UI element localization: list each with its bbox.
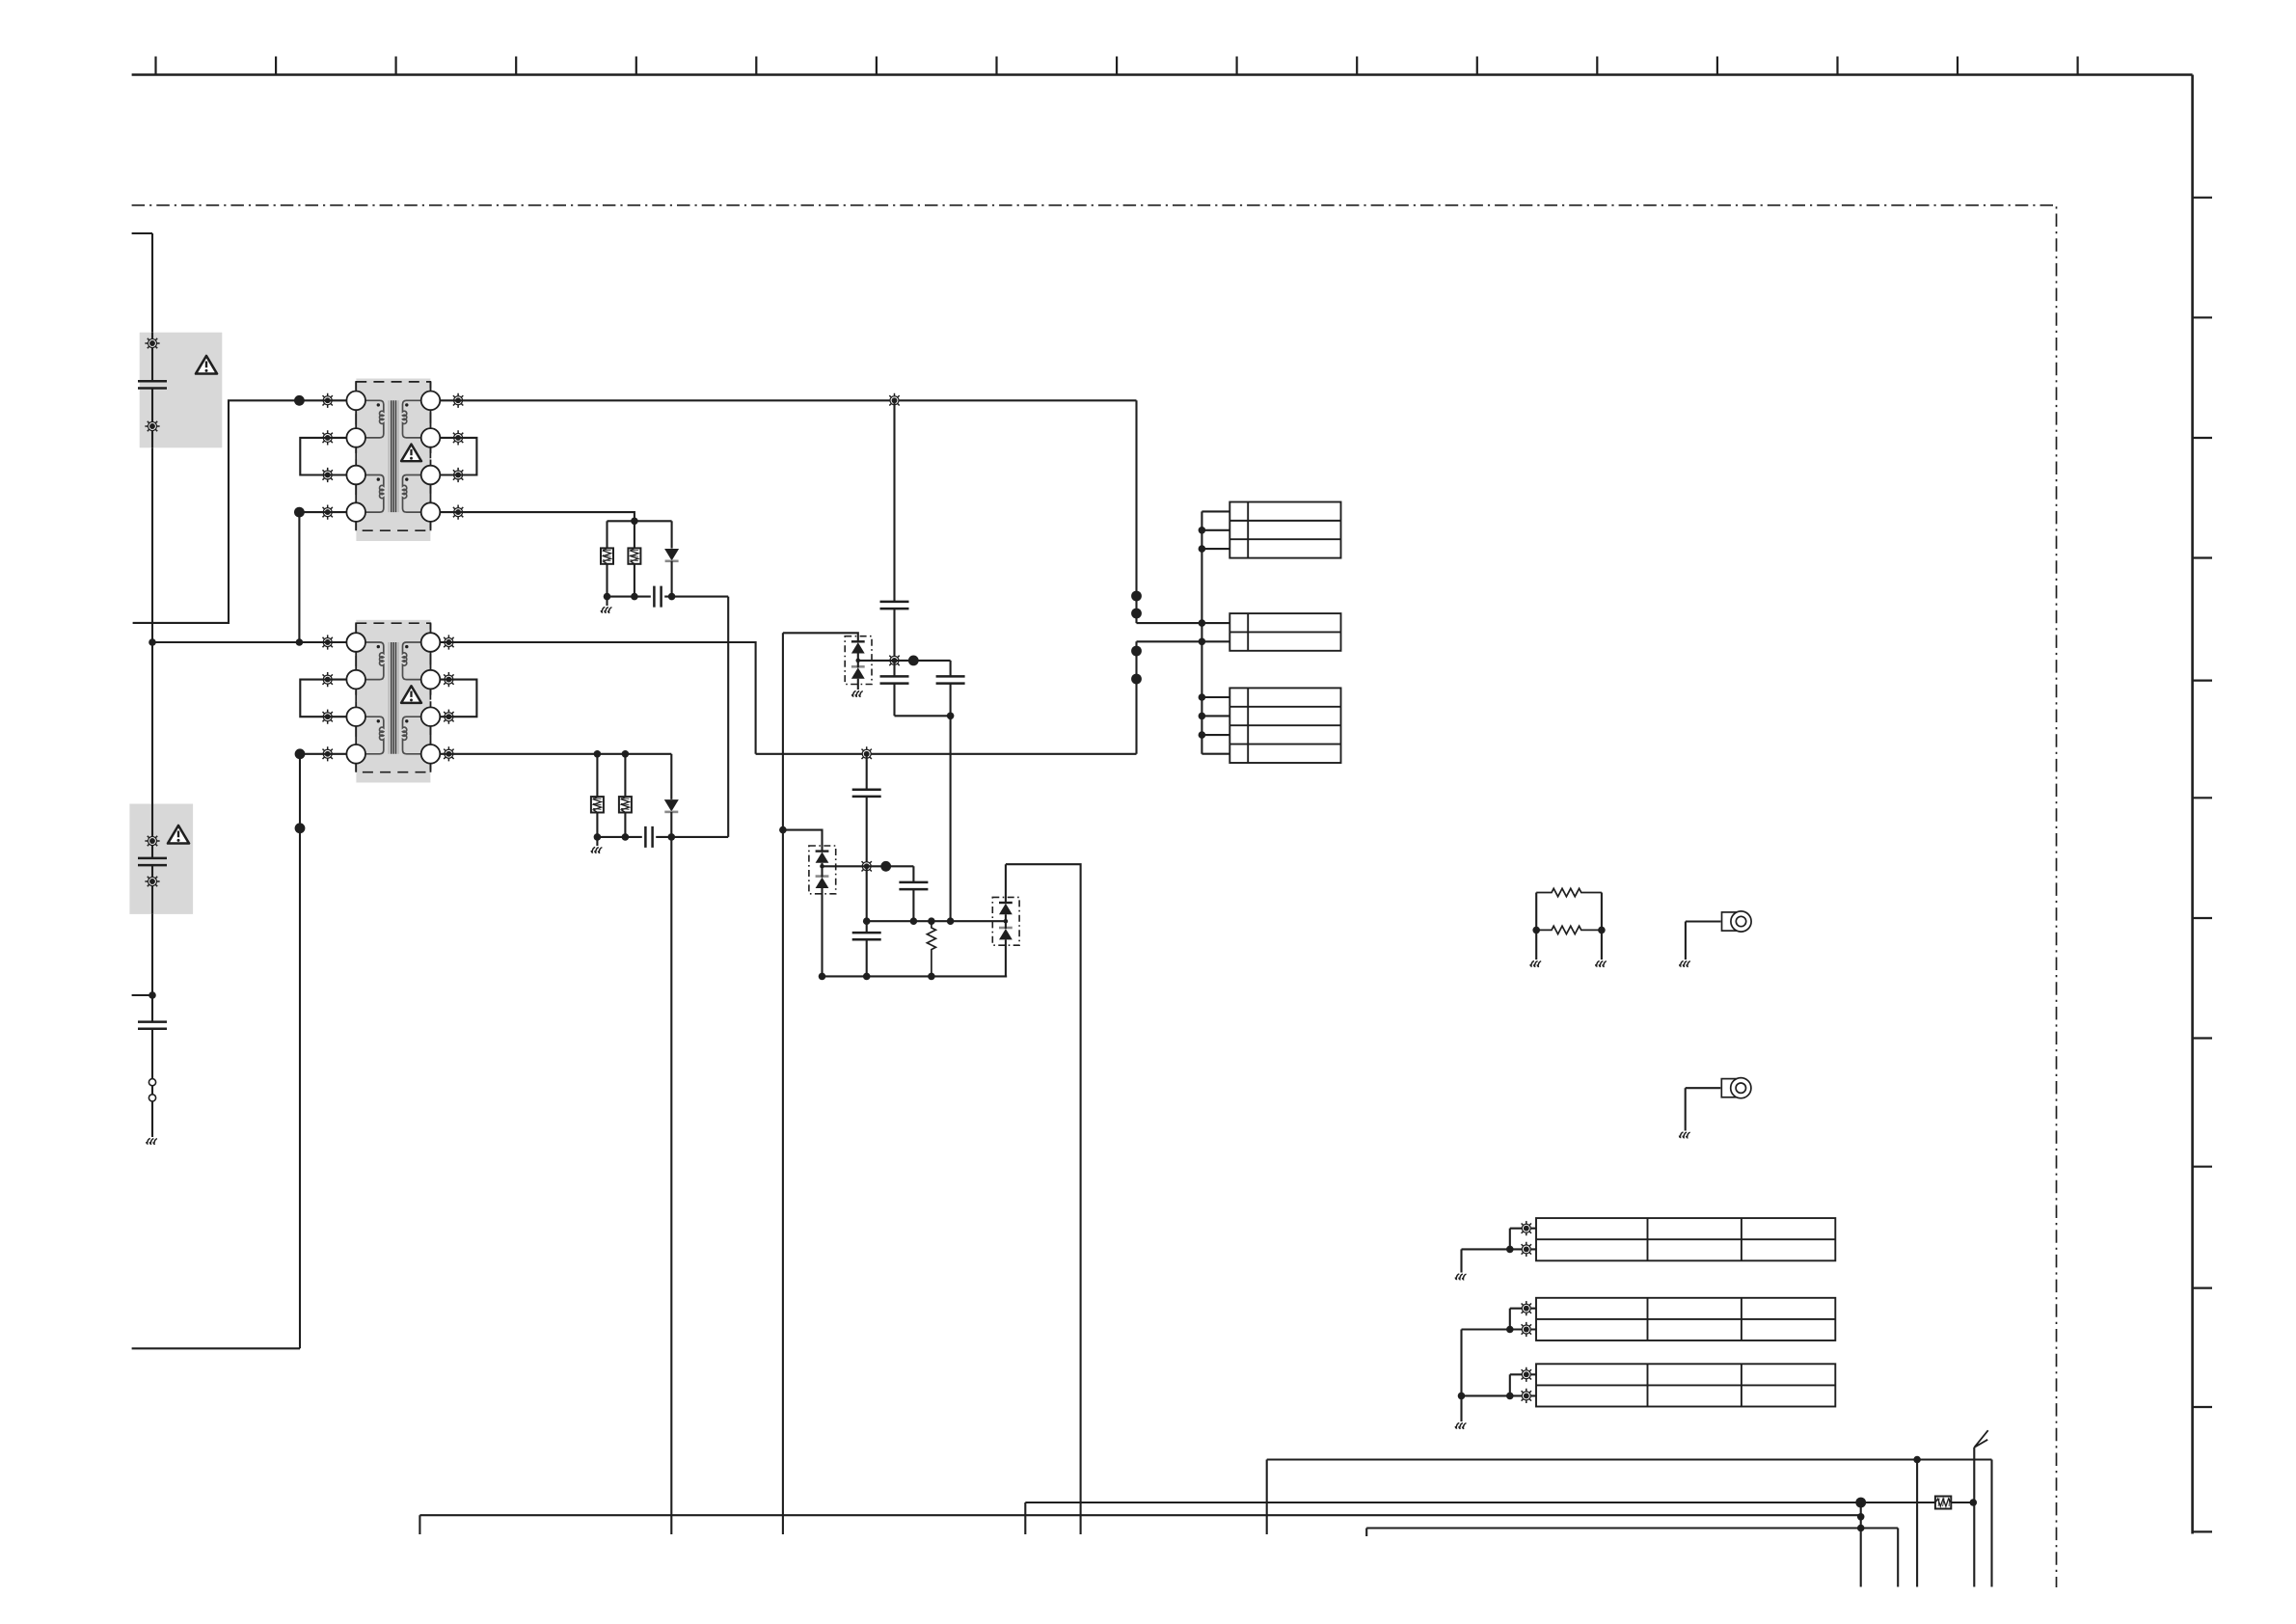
wire down to node wire [950,716,952,921]
rail D left stub [1365,1529,1367,1537]
junction [1199,693,1206,701]
chassis ground [852,691,863,697]
capacitor C8 [645,826,652,848]
snubber2 bottom wire [597,836,728,838]
chassis ground [1596,961,1607,967]
dual diode DD2 [809,846,836,894]
cap C11 branch [866,866,868,976]
solder point on NetB [859,746,874,761]
junction [1506,1246,1514,1254]
T2 pin4 right wire [440,753,671,755]
solder point T2 [442,746,456,761]
connector CN-B [1229,613,1340,651]
capacitor C6 [880,676,909,683]
wire DD3 anode to bottom [1006,864,1081,1534]
chassis ground [601,608,611,613]
solder point [1519,1322,1533,1337]
wire T1 pin1 to right rail [440,399,1136,401]
winding T2 [403,642,431,680]
solder point T1 [320,430,335,445]
wire stub from border [132,994,152,996]
solder point T1 [451,468,466,482]
solder point [1519,1301,1533,1315]
wire border to T1 pin1 [133,400,347,623]
DD1 mid lead [857,654,859,668]
junction [1506,1393,1514,1400]
cap C7 branch [950,661,952,716]
junction [594,750,602,758]
junction [1506,1326,1514,1334]
dash-dot board boundary [132,205,2057,1587]
junction [296,638,304,646]
wire down to CN-F row2 [1460,1330,1462,1396]
splice dot [1131,674,1142,685]
dual diode DD1 [845,636,872,685]
solder point T1 [451,505,466,520]
lug wire [1686,920,1721,922]
anode rail down [782,633,784,1534]
dual diode DD3 [992,897,1019,945]
wire to connector CN-B row2 [1137,640,1230,642]
resistor R11 [1536,926,1602,934]
cap C10 branch [912,866,914,921]
pin stems T1 [355,382,357,530]
vertical to bottom edge [1916,1460,1918,1587]
junction [149,991,156,999]
CN-F row1 wire [1510,1373,1536,1375]
node wire to cap [895,660,951,662]
left leg [1535,893,1537,961]
connector rail vertical [1201,511,1202,753]
wire T1 pin4 down to T2 row [298,512,300,642]
winding T1 [356,400,384,438]
winding T1 [356,475,384,513]
splice dot [294,395,305,406]
pin T1 [346,392,365,411]
node wire to DD3 [867,920,1006,922]
solder point T2 [320,746,335,761]
lead R5 [624,754,626,797]
connector table CN-F [1536,1364,1835,1406]
T2 left link pins 2-3 [300,680,346,717]
junction [668,833,676,841]
caution triangle [196,356,217,374]
splice dot [1131,591,1142,602]
junction [1598,927,1606,934]
solder point T1 [320,393,335,408]
junction with connector rail [1199,638,1206,646]
rail A left leg [1266,1460,1268,1535]
junction [928,973,935,981]
connector stub [1202,696,1229,698]
DD2 cathode down [821,888,823,976]
solder point [145,874,159,888]
line filter transformer T1 [356,379,430,542]
snubber leads bottom [608,561,672,597]
caution triangle T1 [401,445,421,462]
splice dot [880,861,891,872]
splice dot [908,656,919,666]
solder point T2 [320,710,335,724]
lug ground leg [1685,922,1687,961]
junction [622,750,630,758]
top ruler ticks [156,57,2078,75]
solder point T1 [451,393,466,408]
junction [1857,1525,1865,1532]
junction [947,917,955,925]
solder point T2 [442,672,456,687]
fusible resistor R1 [601,548,613,563]
solder point [145,833,159,848]
CN-F row2 wire [1462,1394,1537,1396]
connector CN-A [1229,502,1340,558]
chassis ground [1530,961,1541,967]
DD3 anode up [1005,864,1007,903]
junction [604,593,611,601]
junction left rail to T2 [149,638,156,646]
T2 pin4 left wire [300,753,346,755]
junction [1199,731,1206,739]
DD3 mid lead [1005,914,1007,929]
lead R4 [596,754,598,797]
solder point T1 [320,505,335,520]
link between contacts [151,1086,153,1094]
wire to DD1 anode [783,633,858,641]
connector table CN-E [1536,1298,1835,1340]
fusible resistor R12 [1935,1497,1951,1509]
cap C5 branch [893,400,895,661]
chassis ground [1455,1274,1466,1280]
rail C left stub [419,1515,420,1534]
connector table CN-D [1536,1218,1835,1260]
junction [1199,527,1206,534]
wire snubber1 to snubber2 [727,597,729,837]
splice dot [295,748,306,759]
junction [947,713,955,720]
pin T2 [346,744,365,764]
DD3 cathode down [1005,939,1007,976]
right rail down [1135,400,1137,623]
junction [631,593,638,601]
bottom node wire [823,975,1008,977]
resistor R10 [1536,888,1602,896]
capacitor C7 [936,676,965,683]
CN-E row1 wire [1510,1308,1536,1310]
T1 right link pins 2-3 [440,438,476,475]
T1 pin4 left wire [299,511,346,513]
lead D1 [671,521,673,548]
junction [928,917,935,925]
connector stub [1202,734,1229,736]
solder point T2 [320,635,335,649]
pin T2 [346,707,365,726]
bottom rail C [419,1514,1860,1516]
right leg [1601,893,1603,961]
solder point [1519,1242,1533,1257]
junction [631,518,638,526]
ground lead [596,837,598,846]
lead R2 [634,521,635,548]
capacitor C2 (Y-cap) [138,858,167,865]
DD2 mid lead [821,863,823,878]
solder point [1519,1389,1533,1403]
rail D right leg [1897,1529,1899,1587]
junction [594,833,602,841]
solder point T2 [320,672,335,687]
connector CN-C [1229,688,1340,763]
pin T2 [346,670,365,690]
junction [910,917,918,925]
rail A right leg [1990,1460,1992,1587]
bottom stub wire to border [132,1347,300,1349]
antenna-marked wire [1973,1448,1975,1587]
wire stub from border [132,232,152,234]
T2 right link pins 2-3 [440,680,476,717]
pin T2 [346,633,365,652]
bottom wire C6-C7 [895,715,951,717]
line filter transformer T2 [356,620,430,783]
node wire right [867,865,914,867]
cap C6 branch [893,661,895,716]
solder point on NetA [887,393,902,408]
junction [1970,1499,1978,1506]
diode D2 [664,799,679,811]
winding T1 [403,475,431,513]
pin T1 [346,502,365,522]
winding T2 [403,717,431,754]
chassis ground [147,1139,157,1145]
junction [1532,927,1540,934]
CN-D row2 wire [1462,1248,1537,1250]
solder point T1 [320,468,335,482]
lead R1 [606,521,608,548]
caution triangle T2 [401,686,421,703]
bottom rail B [1025,1502,1934,1503]
DD2 mid node wire [823,865,867,867]
junction [863,973,871,981]
junction [863,917,871,925]
NetB horizontal [756,753,1137,755]
lug wire [1686,1087,1721,1089]
chassis ground [1679,1132,1689,1138]
winding T1 [403,400,431,438]
capacitor C3 [138,1022,167,1029]
junction [1199,713,1206,720]
capacitor C5 [880,602,909,609]
DD1 cathode to ground [857,679,859,690]
solder point [145,419,159,433]
right ruler line [2191,75,2194,1534]
pin T1 [346,466,365,485]
chassis ground [1455,1423,1466,1429]
connector stub [1202,715,1229,717]
solder point T1 [451,430,466,445]
solder point T2 [442,710,456,724]
capacitor C1 (Y-cap) [138,381,167,388]
winding T2 [356,642,384,680]
T2 pin4 corner down to D2 [670,754,672,799]
solder point T2 [442,635,456,649]
connector link (2 contacts) [149,1079,155,1086]
connector stub [1202,548,1229,550]
solder point [887,653,902,667]
junction [1857,1513,1865,1521]
wire to connector CN-B row1 [1137,622,1230,624]
ground leg [1460,1395,1462,1421]
left AC input rail [151,233,153,1137]
pin stems T2 [355,623,357,772]
vertical to bottom edge [1860,1502,1862,1587]
solder point [1519,1221,1533,1235]
rail B left leg [1024,1502,1026,1534]
connector stub [1202,753,1229,755]
solder point [145,336,159,350]
junction [1199,545,1206,553]
right ruler ticks [2193,198,2212,1532]
caution area box 1 [140,333,223,448]
CN-E row2 wire [1462,1328,1537,1330]
chassis ground [591,848,602,853]
wire rail to DD2 anode [783,830,823,852]
T2 pin1 right wire [440,642,755,754]
diode D1 [664,549,679,560]
solder point [859,859,874,874]
junction with connector rail [1199,619,1206,627]
splice dot [295,823,306,833]
splice dot [1855,1498,1866,1508]
connector stub [1202,510,1229,512]
bottom rail D [1366,1527,1898,1529]
fusible resistor R2 [628,548,640,563]
pin T1 [346,428,365,447]
connector stub [1202,529,1229,531]
top ruler line [132,73,2193,76]
splice dot [1131,646,1142,657]
ground lead [606,597,608,606]
snubber bottom wire [608,596,729,598]
splice dot [294,507,305,518]
chassis ground [1680,961,1690,967]
caution triangle [168,826,189,844]
cap C9 branch [866,754,868,867]
winding T2 [356,717,384,754]
CN-D row1 wire [1510,1228,1536,1230]
NetB vertical [1135,641,1137,754]
junction [779,826,787,834]
ground leg [1460,1249,1462,1272]
junction [1913,1456,1921,1464]
junction [819,973,826,981]
solder point [1519,1367,1533,1382]
rail B right segment [1952,1502,1975,1503]
wire down to bottom stub [299,754,301,1349]
junction [622,833,630,841]
fusible resistor R5 [619,797,632,812]
T1 left link pins 2-3 [300,438,346,475]
junction [668,593,676,601]
splice dot [1131,609,1142,619]
snubber top wire [608,520,672,522]
long wire down (snubber2 node) [670,837,672,1534]
fusible resistor R4 [591,797,604,812]
capacitor C4 [654,586,661,608]
caution area box 2 [129,804,193,914]
T1 pin4 right wire [440,512,635,521]
junction [1458,1393,1466,1400]
capacitor C11 [852,933,881,939]
resistor R3 [927,921,935,976]
bottom rail A [1267,1458,1992,1460]
capacitor C10 [899,882,928,889]
lug ground leg [1685,1088,1687,1130]
snubber2 leads bottom [597,812,671,837]
wire left rail to T2 pin1 [152,641,346,643]
DD1 mid node wire [858,660,895,662]
capacitor C9 [852,790,881,797]
